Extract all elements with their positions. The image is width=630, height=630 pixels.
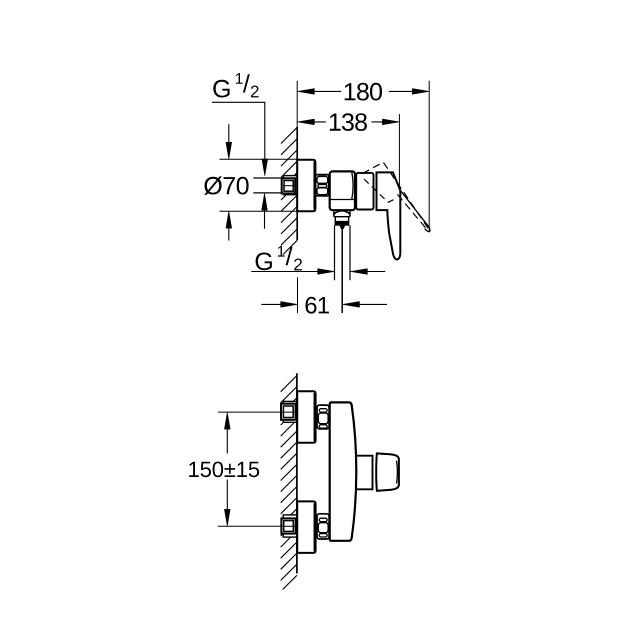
cartridge boss (front view) bbox=[356, 456, 373, 490]
shower outlet nipple (side view) bbox=[340, 225, 345, 228]
dimension 138: dimension line and arrows bbox=[398, 114, 400, 190]
dimension text 61 bbox=[306, 297, 329, 314]
lower supply square nut inner face (front view) bbox=[284, 521, 294, 532]
valve body seam line (side view) bbox=[330, 199, 354, 201]
G1/2 top label leader and arrow bbox=[212, 102, 265, 162]
lever cap inner arc (front view) bbox=[396, 461, 399, 484]
raised handle blade top edge (solid) bbox=[401, 191, 429, 227]
label G (top) bbox=[213, 80, 229, 98]
upper supply square nut inner face (front view) bbox=[283, 406, 293, 418]
escutcheon right-edge shading (side view) bbox=[313, 162, 315, 210]
label slash (top) bbox=[243, 74, 250, 92]
dimension 180: extension lines bbox=[296, 81, 298, 127]
dimension 150±15: extension/centre lines bbox=[218, 411, 295, 413]
valve body (front view) bbox=[330, 402, 357, 540]
label 2 subscript (bottom) bbox=[294, 259, 302, 271]
shower outlet dome (side view) bbox=[334, 211, 350, 214]
dimension Ø70: extension lines bbox=[220, 159, 297, 211]
shower outlet dark ring (side view) bbox=[335, 222, 349, 225]
label 1 superscript (bottom) bbox=[278, 246, 285, 257]
raised handle tip bbox=[425, 227, 430, 232]
outlet centreline (side view) bbox=[341, 229, 343, 313]
supply square nut inner face (side view) bbox=[284, 181, 293, 192]
label G (bottom) bbox=[256, 253, 272, 271]
dimension 61: line and arrows bbox=[261, 303, 282, 305]
dimension 61: wall extension line bbox=[297, 277, 299, 313]
valve body cylinder arc (side view) bbox=[352, 172, 353, 199]
lever cap (front view) bbox=[376, 453, 399, 490]
dimension text Ø70 bbox=[204, 176, 248, 195]
dimension 150±15: vertical line and arrows bbox=[226, 428, 228, 512]
cartridge section (side view) bbox=[356, 173, 373, 210]
lower supply flange (front view) bbox=[283, 515, 297, 537]
raised handle (phantom, dashed) bbox=[363, 162, 430, 230]
dimension 180: dimension line and arrows bbox=[313, 90, 413, 92]
lower escutcheon (front view) bbox=[297, 501, 315, 553]
wall hatching (top figure) bbox=[281, 127, 297, 254]
upper supply square nut (front view) bbox=[281, 404, 296, 420]
dimension text 150±15 bbox=[189, 462, 259, 478]
supply pipe behind wall (side view) bbox=[253, 178, 282, 193]
lower supply square nut (front view) bbox=[281, 518, 295, 533]
label slash (bottom) bbox=[286, 247, 293, 265]
supply nut lower arrow bbox=[264, 208, 266, 229]
outlet thread edges / extension lines (side view) bbox=[335, 225, 351, 280]
supply flange on wall (side view) bbox=[283, 176, 297, 195]
union hex nut (side view) bbox=[316, 175, 329, 196]
upper supply flange (front view) bbox=[283, 401, 297, 422]
dimension text 138 bbox=[330, 113, 367, 131]
wall line (bottom figure) bbox=[296, 373, 298, 573]
supply centreline through nut (side view) bbox=[283, 185, 295, 187]
dimension text 180 bbox=[345, 83, 382, 101]
supply square nut behind wall (side view) bbox=[282, 178, 296, 193]
dimension G1/2 outlet: line and arrows bbox=[251, 271, 319, 273]
lever cap and closed handle blade (side view) bbox=[377, 172, 401, 259]
label 1 superscript (top) bbox=[236, 73, 243, 84]
wall hatching (bottom figure) bbox=[281, 376, 297, 590]
upper escutcheon (front view) bbox=[297, 391, 315, 443]
label 2 subscript (top) bbox=[251, 86, 259, 98]
wall line (top figure) bbox=[296, 127, 298, 240]
lower union nut (front view) bbox=[317, 514, 329, 539]
escutcheon (side view) bbox=[297, 160, 315, 212]
shower outlet collar (side view) bbox=[334, 217, 350, 222]
valve body (side view) bbox=[330, 171, 355, 210]
dimension Ø70: arrows bbox=[228, 124, 230, 145]
upper union nut (front view) bbox=[317, 405, 329, 429]
